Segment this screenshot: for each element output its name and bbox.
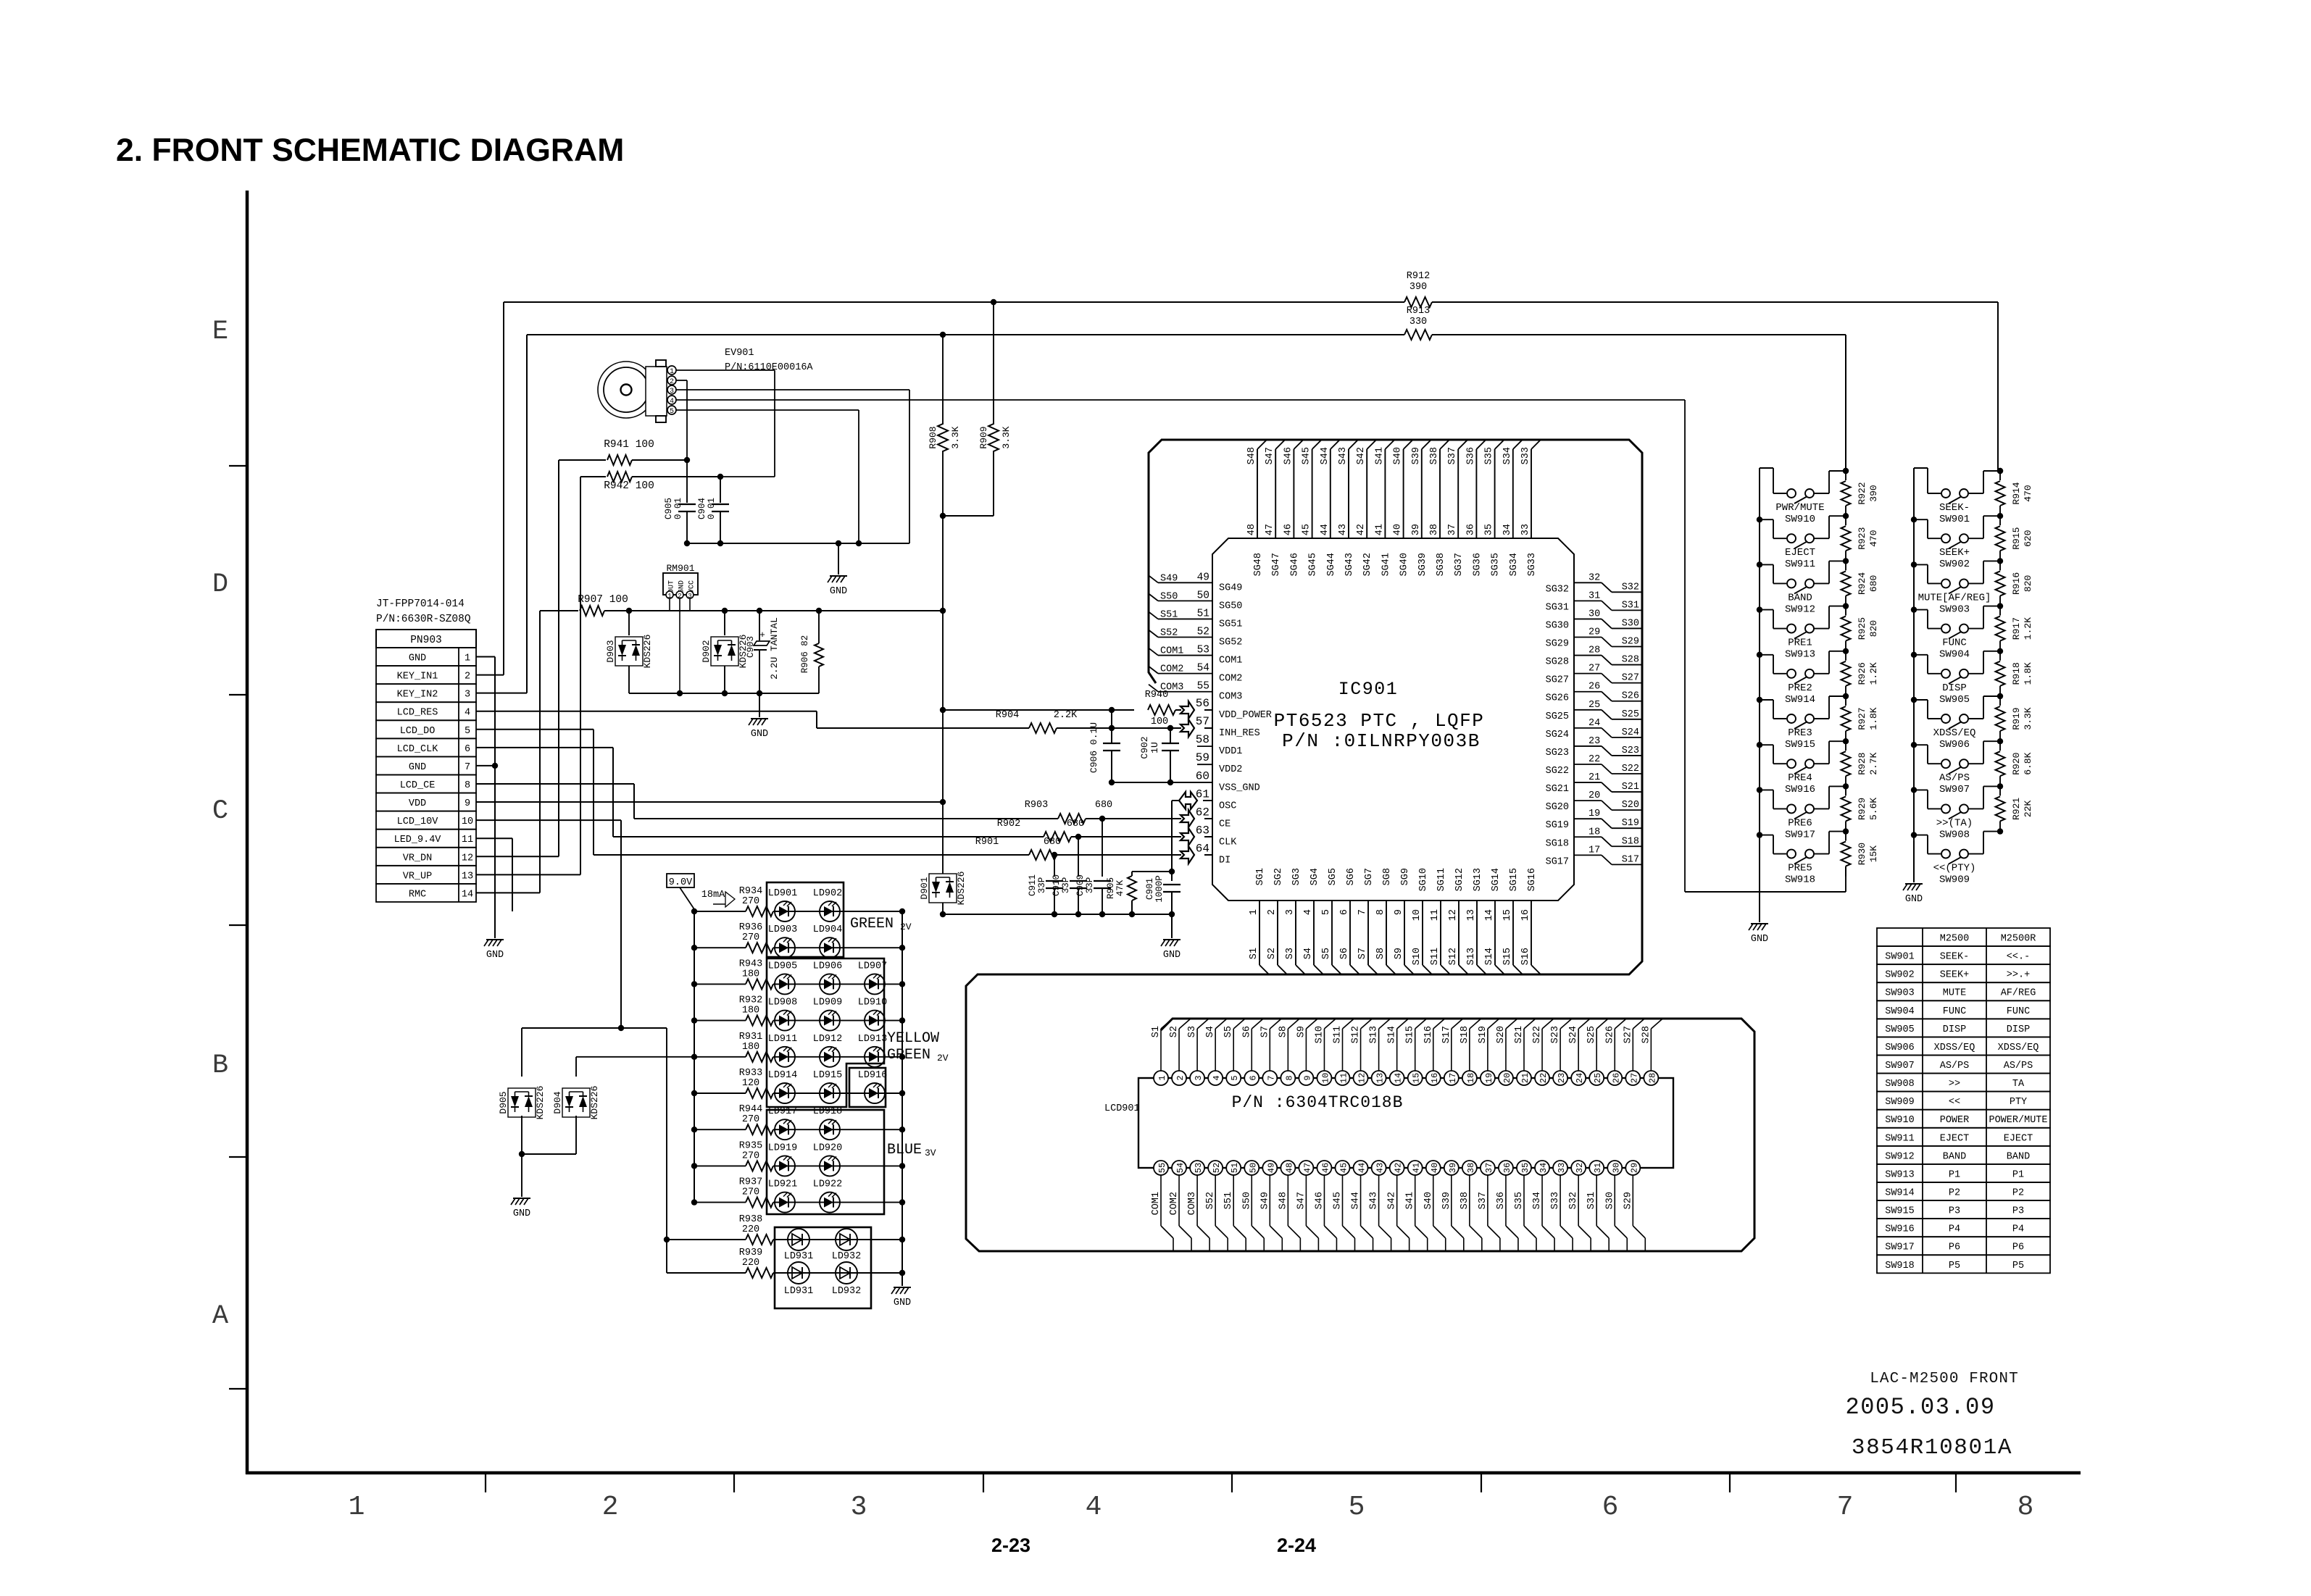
svg-text:LCD901: LCD901 [1104, 1103, 1140, 1114]
svg-text:59: 59 [1196, 751, 1209, 764]
svg-text:SW914: SW914 [1785, 694, 1815, 706]
svg-text:S26: S26 [1604, 1026, 1615, 1043]
svg-text:2: 2 [602, 1492, 619, 1523]
svg-text:S17: S17 [1441, 1026, 1452, 1043]
switch SW907 AS/PS [1911, 742, 1917, 748]
svg-text:S50: S50 [1241, 1192, 1252, 1209]
svg-text:S7: S7 [1259, 1026, 1270, 1037]
svg-text:SG42: SG42 [1362, 553, 1373, 576]
svg-text:51: 51 [1230, 1163, 1240, 1173]
svg-text:EJECT: EJECT [1785, 547, 1815, 559]
svg-text:M2500R: M2500R [2001, 934, 2036, 945]
svg-text:S5: S5 [1223, 1026, 1234, 1037]
svg-text:8: 8 [1284, 1075, 1294, 1080]
svg-text:S12: S12 [1448, 948, 1459, 965]
LED LD932 bottom [836, 1262, 857, 1284]
svg-text:5.6K: 5.6K [1868, 798, 1879, 820]
svg-text:R941 100: R941 100 [604, 439, 654, 451]
svg-text:R930: R930 [1857, 843, 1867, 865]
svg-text:BLUE: BLUE [887, 1142, 922, 1158]
svg-text:RMC: RMC [409, 889, 426, 900]
svg-text:S37: S37 [1447, 447, 1458, 464]
resistor R914 470 [1997, 468, 2003, 474]
svg-text:12: 12 [1448, 909, 1459, 921]
svg-text:S20: S20 [1496, 1026, 1507, 1043]
table row SW914 [1877, 1182, 2050, 1200]
svg-text:3: 3 [851, 1492, 867, 1523]
svg-text:48: 48 [1284, 1163, 1294, 1173]
svg-text:33: 33 [1557, 1163, 1567, 1173]
svg-text:VDD1: VDD1 [1219, 746, 1242, 757]
svg-text:SW907: SW907 [1939, 784, 1970, 795]
svg-text:45: 45 [1302, 524, 1312, 535]
pin 63 arrow [1181, 828, 1194, 845]
svg-text:LD918: LD918 [813, 1106, 843, 1117]
svg-text:<<(PTY): <<(PTY) [1933, 863, 1976, 874]
svg-text:R925: R925 [1857, 617, 1867, 640]
svg-text:S22: S22 [1622, 764, 1639, 774]
svg-text:SG37: SG37 [1454, 553, 1465, 576]
svg-text:46: 46 [1283, 524, 1294, 535]
switch SW915 PRE3 [1757, 697, 1762, 703]
svg-text:3.3K: 3.3K [2023, 707, 2033, 730]
table row header [1877, 928, 2050, 946]
wire VR_DN net [476, 856, 559, 857]
svg-text:LED_9.4V: LED_9.4V [394, 835, 442, 845]
svg-text:C906 0.1U: C906 0.1U [1088, 722, 1099, 773]
svg-text:6: 6 [1602, 1492, 1619, 1523]
svg-text:SG17: SG17 [1546, 856, 1569, 867]
pin 62 arrow [1181, 810, 1194, 827]
svg-text:5: 5 [1230, 1075, 1240, 1080]
table row SW916 [1877, 1219, 2050, 1237]
svg-text:SW915: SW915 [1885, 1206, 1915, 1217]
svg-text:7: 7 [465, 762, 470, 773]
svg-text:20: 20 [1588, 790, 1600, 801]
svg-text:SW918: SW918 [1785, 874, 1815, 886]
svg-text:R904: R904 [996, 710, 1019, 721]
svg-text:TA: TA [2012, 1079, 2025, 1090]
svg-text:3V: 3V [925, 1148, 936, 1158]
svg-text:S1: S1 [1151, 1026, 1162, 1037]
svg-text:5: 5 [670, 408, 674, 416]
switch SW910 PWR/MUTE [1760, 467, 1773, 469]
svg-text:EV901: EV901 [725, 348, 754, 359]
svg-text:SW916: SW916 [1785, 784, 1815, 795]
svg-text:SG25: SG25 [1546, 711, 1569, 722]
svg-text:49: 49 [1266, 1163, 1276, 1173]
svg-text:270: 270 [742, 932, 759, 943]
svg-text:P6: P6 [2012, 1242, 2024, 1253]
capacitor C909 33P [1102, 819, 1103, 877]
svg-text:SG1: SG1 [1255, 868, 1266, 885]
svg-text:6: 6 [1339, 909, 1350, 915]
resistor R917 1.2K [1997, 603, 2003, 609]
svg-text:SG43: SG43 [1344, 553, 1355, 576]
svg-text:SW907: SW907 [1885, 1061, 1915, 1071]
wire KEY_IN2 net [476, 693, 527, 694]
svg-text:R936: R936 [739, 922, 762, 933]
svg-text:P4: P4 [1949, 1224, 1960, 1235]
svg-text:9: 9 [465, 798, 470, 809]
svg-text:R906 82: R906 82 [800, 635, 810, 674]
svg-text:820: 820 [2023, 575, 2033, 592]
svg-text:SG35: SG35 [1491, 553, 1502, 576]
svg-text:S26: S26 [1622, 691, 1639, 702]
svg-text:S1: S1 [1249, 948, 1259, 959]
table row SW908 [1877, 1074, 2050, 1092]
switch SW912 BAND [1757, 561, 1762, 567]
svg-text:S44: S44 [1320, 447, 1331, 464]
svg-text:S2: S2 [1267, 948, 1278, 959]
svg-text:680: 680 [1868, 575, 1879, 592]
svg-text:S16: S16 [1423, 1026, 1434, 1043]
svg-text:P/N:6630R-SZ08Q: P/N:6630R-SZ08Q [376, 614, 471, 625]
svg-text:14: 14 [1484, 909, 1495, 921]
svg-text:24: 24 [1575, 1073, 1585, 1083]
rotary encoder EV901 [598, 362, 654, 418]
switch ladder 1 left bus [1759, 468, 1760, 840]
svg-text:5: 5 [465, 726, 470, 737]
switch ladder 2 left bus [1913, 468, 1915, 840]
IC901 top pin wires S48-S33 [1257, 449, 1258, 538]
svg-text:6.8K: 6.8K [2023, 752, 2033, 774]
svg-text:33P: 33P [1061, 877, 1071, 894]
IC901 bottom pin wires SG1-SG16 to S1-S16 [1259, 901, 1260, 965]
svg-text:1000P: 1000P [1154, 875, 1165, 903]
svg-text:GREEN: GREEN [887, 1047, 930, 1064]
svg-text:S23: S23 [1550, 1026, 1561, 1043]
svg-text:13: 13 [1375, 1073, 1386, 1083]
table row SW910 [1877, 1110, 2050, 1128]
switch SW911 EJECT [1757, 517, 1762, 522]
svg-text:KDS226: KDS226 [535, 1086, 546, 1120]
svg-text:2-23: 2-23 [991, 1534, 1030, 1556]
svg-text:D: D [212, 569, 228, 600]
svg-text:18mA: 18mA [701, 890, 725, 901]
svg-text:SG28: SG28 [1546, 657, 1569, 668]
svg-text:AS/PS: AS/PS [2004, 1061, 2033, 1071]
svg-text:30: 30 [1588, 609, 1600, 619]
svg-text:36: 36 [1465, 524, 1476, 535]
svg-text:1: 1 [670, 368, 674, 376]
EV901 pin4 wire (common) [676, 399, 1685, 401]
svg-text:LD917: LD917 [768, 1106, 798, 1117]
svg-text:42: 42 [1356, 524, 1367, 535]
svg-text:POWER/MUTE: POWER/MUTE [1989, 1115, 2047, 1126]
svg-text:S5: S5 [1321, 948, 1332, 959]
svg-text:S13: S13 [1466, 948, 1477, 965]
svg-text:S37: S37 [1478, 1192, 1488, 1209]
svg-text:21: 21 [1520, 1073, 1531, 1083]
svg-text:C: C [212, 796, 228, 827]
svg-text:S34: S34 [1502, 447, 1513, 464]
LCD901 top pins 1-28 [1160, 1029, 1162, 1071]
svg-text:S33: S33 [1520, 447, 1531, 464]
svg-text:SG26: SG26 [1546, 693, 1569, 704]
svg-text:P/N :0ILNRPY003B: P/N :0ILNRPY003B [1282, 730, 1481, 752]
svg-text:PRE1: PRE1 [1788, 638, 1812, 649]
svg-text:17: 17 [1448, 1073, 1458, 1083]
svg-text:8: 8 [2018, 1492, 2034, 1523]
svg-text:DISP: DISP [2007, 1024, 2030, 1035]
svg-text:LD931: LD931 [784, 1251, 814, 1262]
svg-text:7: 7 [1357, 909, 1368, 915]
svg-text:20: 20 [1502, 1073, 1512, 1083]
svg-text:SW908: SW908 [1939, 829, 1970, 840]
svg-text:62: 62 [1196, 806, 1209, 819]
svg-text:38: 38 [1466, 1163, 1476, 1173]
LCD901 bottom pins 55-29 [1160, 1175, 1162, 1226]
diode D905 KDS226 [522, 1027, 621, 1029]
wire LCD_DO net [476, 729, 594, 730]
svg-text:LD914: LD914 [768, 1070, 798, 1081]
svg-text:KDS226: KDS226 [642, 635, 653, 669]
svg-text:PTY: PTY [2010, 1097, 2027, 1108]
svg-text:S15: S15 [1405, 1026, 1416, 1043]
svg-text:680: 680 [1044, 837, 1061, 848]
IC U-IC901 body outline [1212, 538, 1574, 901]
svg-text:9.0V: 9.0V [669, 877, 693, 888]
svg-text:FUNC: FUNC [1943, 1006, 1966, 1017]
svg-text:40: 40 [1393, 524, 1404, 535]
svg-text:3.3K: 3.3K [950, 426, 961, 448]
svg-text:C903: C903 [746, 636, 756, 658]
svg-text:SG52: SG52 [1219, 638, 1242, 648]
svg-text:270: 270 [742, 896, 759, 907]
svg-text:KDS226: KDS226 [956, 872, 967, 906]
svg-text:31: 31 [1593, 1163, 1603, 1173]
svg-text:SG41: SG41 [1381, 553, 1391, 576]
EV901 pin1 wire [676, 369, 775, 371]
switch SW901 SEEK- [1914, 467, 1928, 469]
svg-text:>>.+: >>.+ [2007, 970, 2030, 981]
resistor R915 620 [1997, 513, 2003, 519]
wire LCD_CE net [476, 783, 634, 785]
ground symbol clamp diodes [513, 1198, 530, 1199]
svg-text:S52: S52 [1160, 628, 1178, 639]
svg-text:C905: C905 [664, 498, 674, 519]
svg-text:SW918: SW918 [1885, 1261, 1915, 1271]
svg-text:R908: R908 [928, 426, 938, 448]
table row SW905 [1877, 1019, 2050, 1037]
svg-text:VDD2: VDD2 [1219, 764, 1242, 775]
svg-text:1: 1 [349, 1492, 365, 1523]
svg-text:SW901: SW901 [1885, 952, 1915, 963]
svg-text:GND: GND [486, 950, 504, 961]
svg-text:LD906: LD906 [813, 961, 843, 972]
svg-text:S33: S33 [1550, 1192, 1561, 1209]
svg-text:>>: >> [1949, 1079, 1960, 1090]
resistor R905 47K [1132, 871, 1172, 872]
svg-text:S39: S39 [1411, 447, 1422, 464]
svg-text:LD915: LD915 [813, 1070, 843, 1081]
svg-text:53: 53 [1194, 1163, 1204, 1173]
svg-text:R919: R919 [2011, 707, 2022, 730]
svg-text:50: 50 [1248, 1163, 1258, 1173]
svg-text:EJECT: EJECT [2004, 1133, 2033, 1144]
svg-text:GND: GND [1905, 894, 1923, 905]
svg-text:SG11: SG11 [1436, 868, 1447, 891]
svg-text:R939: R939 [739, 1248, 762, 1258]
svg-text:27: 27 [1629, 1073, 1639, 1083]
svg-text:GND: GND [751, 729, 768, 740]
svg-text:53: 53 [1197, 645, 1209, 656]
table row SW912 [1877, 1146, 2050, 1164]
svg-text:S21: S21 [1622, 782, 1639, 793]
svg-text:270: 270 [742, 1187, 759, 1198]
svg-text:18: 18 [1588, 827, 1600, 837]
svg-text:BAND: BAND [1788, 592, 1812, 603]
frame left tick marks [229, 465, 247, 467]
svg-text:SG4: SG4 [1309, 868, 1320, 885]
svg-text:COM1: COM1 [1160, 646, 1183, 657]
ground symbol RM901 cluster [751, 718, 768, 719]
resistor R932 180 and LED row [694, 1020, 746, 1021]
svg-text:COM3: COM3 [1219, 692, 1242, 703]
wire LCD_RES net [476, 711, 817, 712]
svg-text:SW914: SW914 [1885, 1187, 1915, 1198]
svg-text:SW903: SW903 [1939, 603, 1970, 615]
svg-text:SEEK-: SEEK- [1940, 952, 1970, 963]
svg-text:43: 43 [1375, 1163, 1386, 1173]
svg-text:SG18: SG18 [1546, 838, 1569, 849]
svg-text:R928: R928 [1857, 753, 1867, 775]
svg-text:LCD_CLK: LCD_CLK [397, 744, 439, 755]
svg-text:2.2K: 2.2K [1054, 710, 1078, 721]
svg-text:LD907: LD907 [858, 961, 888, 972]
table row SW904 [1877, 1000, 2050, 1019]
svg-text:6: 6 [465, 744, 470, 755]
svg-text:SW903: SW903 [1885, 988, 1915, 999]
capacitor C902 1U [1170, 728, 1171, 743]
svg-text:47: 47 [1302, 1163, 1312, 1173]
resistor R902 680 [1044, 832, 1071, 842]
svg-text:15K: 15K [1868, 845, 1879, 863]
table row SW903 [1877, 982, 2050, 1000]
svg-text:COM2: COM2 [1219, 674, 1242, 685]
svg-text:KDS226: KDS226 [589, 1086, 600, 1120]
svg-text:IC901: IC901 [1338, 679, 1399, 700]
svg-text:LD931: LD931 [784, 1286, 814, 1297]
pin 57 arrow [1181, 719, 1194, 737]
svg-text:S45: S45 [1333, 1192, 1344, 1209]
svg-text:P/N:6110E00016A: P/N:6110E00016A [725, 362, 813, 373]
LED group box YELLOW GREEN [767, 958, 884, 1107]
svg-text:SG45: SG45 [1308, 553, 1319, 576]
svg-text:S12: S12 [1351, 1026, 1362, 1043]
svg-text:R931: R931 [739, 1032, 762, 1043]
ground symbol below IC [1163, 939, 1181, 940]
svg-text:LD919: LD919 [768, 1142, 798, 1153]
pin 64 arrow [1181, 846, 1194, 864]
svg-text:S11: S11 [1333, 1026, 1344, 1043]
svg-text:SW904: SW904 [1885, 1006, 1915, 1017]
svg-text:63: 63 [1196, 824, 1209, 837]
svg-text:LD913: LD913 [858, 1034, 888, 1045]
svg-text:SG48: SG48 [1253, 553, 1264, 576]
LED group box GREEN [767, 882, 844, 957]
svg-text:SG20: SG20 [1546, 802, 1569, 813]
svg-text:64: 64 [1196, 843, 1209, 856]
resistor R936 270 and LED row [694, 947, 746, 948]
svg-text:S6: S6 [1339, 948, 1350, 959]
svg-text:SG7: SG7 [1364, 868, 1375, 885]
resistor R926 1.2K [1843, 648, 1849, 654]
svg-text:AS/PS: AS/PS [1940, 1061, 1970, 1071]
capacitor C904 0.01 [720, 477, 721, 503]
svg-text:KEY_IN1: KEY_IN1 [397, 672, 438, 682]
svg-text:24: 24 [1588, 718, 1600, 729]
svg-text:PWR/MUTE: PWR/MUTE [1775, 502, 1824, 514]
svg-text:R923: R923 [1857, 527, 1867, 550]
svg-text:C901: C901 [1145, 878, 1155, 900]
EV901 pin3 wire [676, 389, 909, 390]
svg-text:2-24: 2-24 [1277, 1534, 1316, 1556]
RM901 GND pin wire [679, 598, 680, 693]
frame bottom tick marks [485, 1473, 486, 1492]
svg-text:+: + [759, 630, 765, 640]
svg-text:29: 29 [1588, 627, 1600, 638]
svg-text:COM2: COM2 [1160, 664, 1183, 675]
svg-text:COM2: COM2 [1169, 1192, 1180, 1215]
svg-text:S39: S39 [1441, 1192, 1452, 1209]
svg-text:R938: R938 [739, 1214, 762, 1225]
svg-text:S23: S23 [1622, 745, 1639, 756]
wire DI net [594, 854, 1029, 856]
wire LCD_CLK net [476, 747, 613, 748]
svg-text:10: 10 [1412, 909, 1423, 921]
svg-text:8: 8 [1375, 909, 1386, 915]
svg-text:SG15: SG15 [1509, 868, 1520, 891]
svg-text:S18: S18 [1460, 1026, 1470, 1043]
svg-text:GND: GND [1163, 950, 1181, 961]
svg-text:GND: GND [513, 1208, 530, 1219]
capacitor C901 1000P [1171, 872, 1173, 881]
encoder ground wire [687, 543, 909, 544]
svg-text:33P: 33P [1085, 877, 1095, 894]
svg-text:S38: S38 [1460, 1192, 1470, 1209]
label 9.0V box [667, 874, 694, 887]
svg-text:SG50: SG50 [1219, 601, 1242, 611]
svg-text:GND: GND [830, 586, 847, 597]
junction R912 to ladder2 [1997, 468, 2003, 474]
svg-text:P2: P2 [1949, 1187, 1960, 1198]
capacitor C910 33P [1078, 837, 1079, 877]
capacitor C911 33P [1054, 855, 1055, 877]
switch SW902 SEEK+ [1911, 517, 1917, 522]
svg-text:13: 13 [462, 871, 473, 882]
svg-text:PRE5: PRE5 [1788, 863, 1812, 874]
resistor R901 680 [1029, 850, 1057, 860]
svg-text:SW909: SW909 [1939, 874, 1970, 886]
ladder 2 ground [1913, 840, 1915, 882]
svg-text:S47: S47 [1296, 1192, 1307, 1209]
svg-text:31: 31 [1588, 590, 1600, 601]
resistor R930 15K [1843, 828, 1849, 834]
svg-text:S15: S15 [1502, 948, 1513, 965]
svg-text:SG46: SG46 [1289, 553, 1300, 576]
svg-text:A: A [212, 1301, 229, 1332]
svg-text:S19: S19 [1478, 1026, 1488, 1043]
svg-text:S13: S13 [1369, 1026, 1380, 1043]
svg-text:R917: R917 [2011, 617, 2022, 640]
svg-text:SG47: SG47 [1271, 553, 1282, 576]
LED matrix left bus 9.0V [694, 909, 695, 1203]
resistor R909 3.3K [993, 302, 994, 425]
svg-text:PRE2: PRE2 [1788, 682, 1812, 694]
svg-text:D901: D901 [919, 877, 930, 899]
